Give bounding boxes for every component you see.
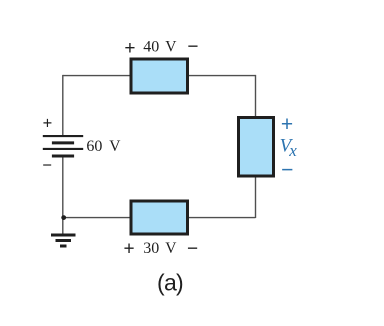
wire ground stem [62, 218, 64, 235]
svg-text:−: − [281, 159, 293, 182]
svg-text:+: + [124, 38, 135, 59]
wire bottom-right segment [188, 217, 256, 219]
ground [51, 235, 76, 246]
svg-text:x: x [288, 141, 297, 160]
svg-text:−: − [42, 157, 52, 175]
svg-text:60: 60 [86, 138, 102, 155]
wire left vertical lower [62, 157, 64, 219]
svg-text:V: V [165, 240, 177, 257]
svg-text:40: 40 [143, 39, 159, 56]
resistor top (40 V element) [131, 59, 188, 93]
resistor bottom (30 V element) [131, 201, 188, 234]
svg-text:(a): (a) [157, 270, 183, 296]
svg-text:V: V [109, 138, 121, 155]
wire top-right segment [188, 75, 256, 77]
wire top-left segment [63, 75, 131, 77]
svg-text:+: + [123, 239, 134, 260]
wire left vertical upper [62, 75, 64, 136]
node junction dot [61, 215, 66, 220]
svg-text:30: 30 [143, 240, 159, 257]
svg-text:−: − [187, 239, 198, 260]
battery 60 V [43, 136, 83, 156]
svg-text:+: + [281, 113, 293, 136]
wire bottom-left segment [63, 217, 131, 219]
svg-text:−: − [187, 37, 198, 58]
svg-text:V: V [165, 39, 177, 56]
element Vx (right) [239, 118, 274, 177]
wire right vertical upper [255, 75, 257, 117]
wire right vertical lower [255, 177, 257, 218]
svg-text:+: + [43, 115, 53, 133]
